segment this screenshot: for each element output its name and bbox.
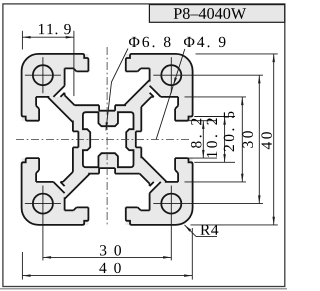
center hole Phi6.8 — [83, 112, 134, 167]
label R4 with leader — [200, 225, 218, 235]
corner hole bottom-left Phi4.9 — [33, 194, 53, 214]
profile body (aluminium extrusion cross-section) — [22, 54, 193, 225]
centerline vertical — [106, 47, 108, 226]
title box P8-4040W — [149, 5, 284, 23]
dim 30 right — [258, 75, 260, 203]
inner cavity lines 2 — [65, 168, 161, 210]
T-slot cavity top — [53, 53, 149, 111]
inner cavity lines 0 — [53, 68, 149, 110]
T-slot cavity bottom — [65, 168, 161, 226]
corner hole bottom-right Phi4.9 — [161, 194, 181, 214]
corner hole top-right Phi4.9 — [161, 65, 181, 85]
inner cavity lines 3 — [36, 97, 78, 193]
dim 30 bottom — [43, 256, 171, 258]
dim 11.9 top-left — [22, 36, 74, 38]
dim 8.2 right — [202, 121, 204, 158]
dim 40 right — [273, 54, 275, 225]
outer boundary — [22, 54, 193, 225]
dim 40 bottom — [22, 275, 192, 277]
T-slot cavity left — [20, 97, 78, 193]
centerline horizontal — [16, 138, 191, 140]
corner hole top-left Phi4.9 — [33, 65, 53, 85]
label Phi6.8 with leader — [129, 37, 171, 48]
inner cavity lines 1 — [136, 86, 178, 182]
dim 20.5 right — [241, 97, 243, 182]
label Phi4.9 with leader — [184, 37, 225, 47]
T-slot cavity right — [136, 86, 194, 182]
dim 10.2 right — [224, 117, 226, 163]
